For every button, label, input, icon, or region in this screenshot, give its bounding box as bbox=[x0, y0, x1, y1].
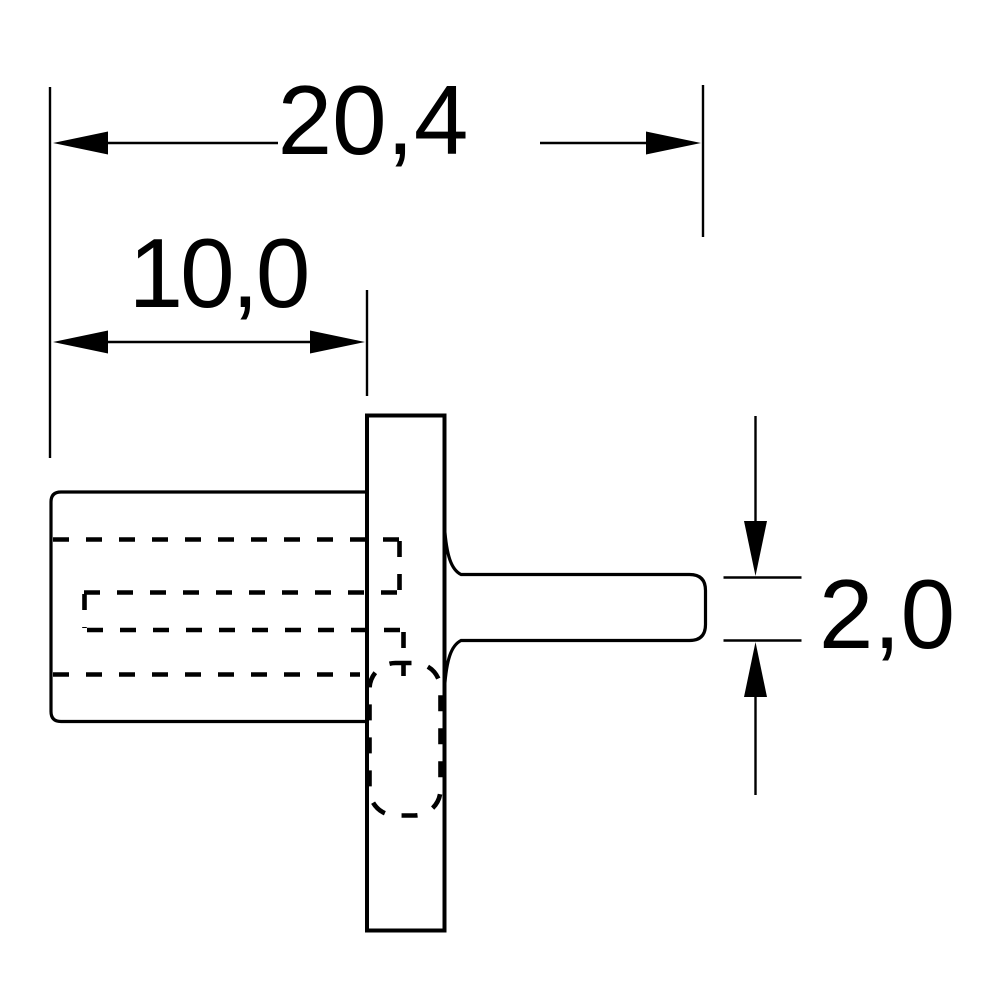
extension line upper for 2,0 bbox=[724, 576, 802, 578]
hidden line 1 (top bore) bbox=[53, 537, 399, 542]
svg-text:10,0: 10,0 bbox=[129, 218, 308, 328]
extension line right for 20,4 bbox=[702, 85, 704, 237]
hidden line 4 (bottom bore) bbox=[53, 672, 360, 677]
dimension 10,0 left arrowhead bbox=[53, 331, 108, 354]
hidden line vertical right upper bbox=[397, 541, 402, 591]
dimension 2,0 upper arrowhead (down) bbox=[744, 521, 767, 576]
hidden line 2 (inner bore top) bbox=[84, 590, 401, 595]
dimension 2,0 lower line bbox=[754, 690, 756, 795]
dimension 20,4 right arrowhead bbox=[646, 132, 701, 155]
dimension 20,4 right line segment bbox=[540, 142, 694, 144]
dimension 20,4 left arrowhead bbox=[53, 132, 108, 155]
dimension 2,0 lower arrowhead (up) bbox=[744, 642, 767, 697]
hidden capsule (hole through flange) bbox=[370, 663, 441, 816]
hidden line vertical right lower bbox=[401, 632, 406, 676]
hidden line vertical left bbox=[82, 594, 87, 628]
hidden line 3 (inner bore bottom) bbox=[87, 628, 404, 633]
extension line right for 10,0 bbox=[366, 290, 368, 396]
dimension 20,4 left line segment bbox=[60, 142, 278, 144]
extension line left (datum) bbox=[49, 87, 51, 458]
dimension 10,0 line bbox=[60, 341, 358, 343]
svg-text:20,4: 20,4 bbox=[278, 65, 469, 175]
part flange (vertical plate) bbox=[367, 416, 445, 931]
pin (right contact) outline with fillets bbox=[445, 527, 706, 688]
extension line lower for 2,0 bbox=[724, 639, 802, 641]
part body (left cylinder outline) bbox=[51, 492, 368, 722]
dimension 2,0 upper line bbox=[754, 416, 756, 528]
svg-text:2,0: 2,0 bbox=[819, 559, 955, 669]
dimension 10,0 right arrowhead bbox=[310, 331, 365, 354]
